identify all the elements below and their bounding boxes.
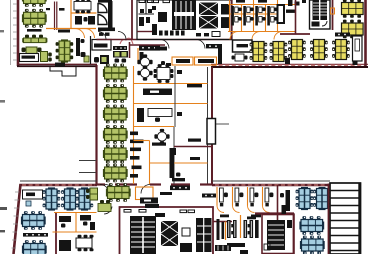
door frame core 1 bbox=[152, 0, 159, 3]
desk pod green W3 bbox=[103, 105, 128, 124]
fixture block bbox=[152, 24, 157, 35]
label room c bbox=[187, 84, 202, 87]
partition orange mid-left v bbox=[75, 213, 77, 233]
ramp / roof hatch area bbox=[329, 183, 362, 254]
cabinet bar bbox=[76, 38, 80, 56]
partition orange wing vertical bbox=[133, 66, 135, 184]
desk pod green W6 bbox=[103, 164, 128, 183]
desk pod green W4 bbox=[103, 125, 128, 144]
marks below lifts bbox=[196, 33, 201, 36]
cabinet left of blue area bbox=[282, 205, 287, 214]
wall maroon core h bbox=[137, 31, 152, 33]
partition orange wing h4 bbox=[134, 140, 150, 142]
wall segments wing south bbox=[97, 183, 214, 185]
conference table C1 bbox=[233, 40, 253, 52]
reception counter bbox=[92, 40, 111, 51]
desk pod yellow vertical D1-1 bbox=[288, 40, 306, 60]
desks right offices bbox=[286, 190, 291, 211]
orange booth 1 bbox=[172, 57, 193, 65]
wall maroon right mid band bbox=[255, 212, 294, 214]
label room b bbox=[188, 139, 201, 142]
wall maroon A1 mid double bbox=[54, 2, 56, 31]
stair bottom core bbox=[130, 216, 156, 254]
wall middle wing right inner bbox=[207, 67, 209, 184]
office desk 3 bbox=[250, 188, 258, 206]
door swing B1-2 bbox=[98, 15, 107, 25]
desk black A1 right room bbox=[75, 16, 82, 25]
conference bar dark wing bbox=[143, 89, 172, 96]
lift pair bbox=[199, 3, 218, 29]
label plate storage bbox=[247, 217, 256, 220]
desk pod blue vertical L2 bbox=[61, 187, 79, 210]
desk bench row storage bbox=[227, 220, 259, 238]
top bar B1 bbox=[98, 0, 112, 3]
wall maroon right of stair bbox=[332, 0, 334, 30]
desk mid-left room1 bbox=[59, 216, 71, 222]
wall maroon core right bbox=[231, 0, 233, 40]
cabinet bars stack wing bbox=[130, 132, 138, 136]
partition orange grid horizontal bbox=[230, 13, 278, 15]
desk pod yellow vertical D1-2 bbox=[310, 40, 328, 60]
step detail below top band bbox=[50, 66, 76, 77]
cubicle desks grid bbox=[231, 6, 234, 16]
margin text marks bbox=[0, 207, 7, 210]
wc fixtures bbox=[140, 9, 144, 13]
desk pod green vertical A1 lower bbox=[56, 39, 74, 62]
door arc wing south bbox=[105, 185, 114, 194]
desk pod green small F2 bbox=[98, 200, 111, 212]
plant room box bbox=[262, 215, 294, 254]
desk pod green A1-2 bbox=[22, 9, 47, 28]
label plate storeroom bbox=[227, 243, 245, 247]
label plates corridor bbox=[220, 215, 229, 218]
window ticks left wall bbox=[13, 4, 17, 60]
lobby mark bbox=[221, 4, 229, 28]
green desks pair lower corridor bbox=[113, 51, 128, 63]
partition orange grid verticals bbox=[229, 0, 231, 32]
reception counter bottom-left bbox=[23, 190, 43, 199]
meeting table A1 right bbox=[74, 0, 91, 13]
black square D1 bottom-right bbox=[353, 62, 358, 66]
desk mid-left room2 bbox=[80, 215, 91, 221]
desk marks wing foot right bbox=[172, 178, 185, 181]
wall middle wing left bbox=[95, 65, 97, 185]
desk pod green W2 bbox=[103, 84, 128, 103]
dim ticks left of wing bbox=[79, 160, 96, 162]
partition orange vertical A1 bbox=[70, 0, 72, 29]
partition orange storage bbox=[240, 215, 242, 238]
bar with chairs bbox=[113, 46, 127, 50]
orange room bottom of wing bbox=[136, 187, 154, 200]
desk black wing foot bbox=[140, 198, 158, 204]
partition orange office v1 bbox=[216, 187, 218, 206]
small marks right column wing bbox=[177, 70, 182, 74]
desk pod yellow horizontal D1-b bbox=[342, 20, 364, 39]
wc partition bbox=[145, 0, 147, 14]
desk pod blue vertical L1 bbox=[43, 187, 61, 210]
desk pod blue horizontal R3 bbox=[299, 216, 324, 235]
round table wing room4 bbox=[154, 129, 169, 144]
partition orange wing h2 bbox=[134, 103, 208, 105]
wc room 2 door frame bbox=[148, 0, 154, 3]
door frames core right bbox=[180, 210, 187, 213]
wall maroon C1 right bbox=[295, 0, 297, 34]
label plate black bbox=[160, 192, 172, 195]
wall top of bottom band, left part bbox=[20, 180, 97, 182]
door arcs C1 bbox=[230, 32, 238, 40]
partition orange horizontal A1 bbox=[46, 28, 96, 30]
desk pod yellow vertical D1-3 bbox=[332, 40, 350, 60]
wall maroon mid-left vertical bbox=[55, 213, 57, 254]
core outline maroon bbox=[120, 207, 214, 254]
label bar above core bbox=[145, 204, 159, 208]
small table C1 bbox=[235, 54, 244, 61]
wall maroon D1 horizontal bbox=[280, 33, 310, 35]
desk pod green W1 bbox=[103, 64, 128, 83]
desk small core mid bbox=[155, 213, 165, 217]
desk pod blue vertical L3 bbox=[76, 187, 94, 210]
cabinet column dark wing bbox=[170, 148, 175, 178]
desk pod blue horizontal L5 (cut) bbox=[22, 240, 47, 254]
bar black B1 bbox=[98, 28, 115, 32]
wall bottom of top band, left part bbox=[17, 63, 97, 65]
stair top-right block bbox=[310, 0, 331, 29]
partition orange horizontal A1 mid bbox=[71, 12, 97, 14]
partition orange office v3 bbox=[247, 187, 249, 206]
door arcs office row bbox=[217, 206, 224, 213]
round meeting table corridor bbox=[137, 54, 152, 69]
cabinet column D1 right bbox=[353, 36, 363, 61]
wall outer left angled (bottom band) bbox=[14, 184, 21, 254]
partition orange wing v2 bbox=[149, 141, 151, 185]
stair shaft main (black with slits) bbox=[172, 0, 196, 30]
lift bottom core bbox=[161, 221, 178, 246]
partition orange office v2 bbox=[232, 187, 234, 206]
counter A1 bottom-left bbox=[20, 54, 39, 62]
marks B1 bbox=[99, 33, 104, 36]
door arcs corridor bbox=[98, 32, 106, 40]
corridor desk 2 bbox=[206, 44, 222, 48]
marks wing right room bbox=[172, 148, 176, 155]
orange booth 2 bbox=[195, 57, 217, 65]
wall maroon corridor stub bbox=[130, 44, 165, 46]
blue chair single bbox=[26, 201, 31, 206]
desk pod blue vertical R1 bbox=[296, 187, 314, 210]
wall bottom of top band, right part bbox=[211, 63, 368, 65]
wall maroon wing right room bbox=[174, 146, 212, 148]
green desk small bbox=[84, 56, 89, 62]
workstation A1-4 bbox=[22, 47, 52, 62]
wall maroon stub corridor bbox=[129, 42, 131, 58]
desk pod yellow vertical C1-a bbox=[250, 42, 268, 62]
office desk 2 bbox=[235, 188, 243, 206]
chair marks near cabinet bbox=[81, 39, 85, 43]
partition orange wing h3 bbox=[134, 126, 175, 128]
side table black bbox=[27, 29, 42, 32]
fixtures core right bbox=[180, 243, 192, 252]
desk wing room3 bbox=[148, 109, 172, 117]
wall maroon below offices bbox=[213, 221, 232, 223]
round table wing top bbox=[137, 65, 152, 80]
wall corridor top band horizontal bbox=[97, 39, 233, 41]
core outline bbox=[137, 0, 232, 40]
door frames core top bbox=[124, 210, 131, 213]
desk pod blue horizontal L4 bbox=[21, 211, 46, 230]
partition orange mid-left h2 bbox=[53, 231, 97, 233]
wall top of bottom band, right part bbox=[212, 180, 330, 182]
desk row A1-3 bbox=[22, 35, 47, 43]
office desk 4 bbox=[265, 188, 273, 206]
side table black blue area bbox=[23, 233, 48, 237]
desk bar bottom corridor bbox=[215, 245, 231, 251]
wall black column B1 bbox=[108, 1, 113, 30]
orange mark right of stair bbox=[331, 8, 335, 14]
margin line far left bbox=[10, 0, 12, 65]
small chair corridor bbox=[161, 61, 165, 65]
balcony box wing right bbox=[207, 119, 216, 145]
desk pod blue horizontal R4 bbox=[300, 236, 325, 254]
door arc A1 bbox=[75, 29, 85, 39]
meeting table wing top bbox=[154, 64, 174, 83]
dark bar right of booths bbox=[218, 46, 222, 64]
plant marks bbox=[287, 220, 292, 228]
marks above cut top bbox=[236, 0, 245, 3]
partition orange mid-left h bbox=[54, 212, 97, 214]
wall maroon office right bbox=[277, 185, 279, 222]
wall black small vertical bbox=[90, 36, 92, 64]
meeting table mid-left bbox=[76, 235, 94, 251]
wall maroon B1 vertical bbox=[131, 0, 133, 40]
desk with chair lower corridor bbox=[94, 55, 109, 64]
desk black office row left bbox=[202, 194, 216, 198]
marks storeroom bbox=[240, 250, 248, 254]
desk pod yellow vertical C1-b bbox=[270, 42, 288, 62]
partition orange h top bbox=[228, 4, 296, 6]
desk pod green A1-1 (cut at top) bbox=[22, 0, 47, 7]
partition orange office v4 bbox=[262, 187, 264, 206]
desk black D1 bbox=[335, 33, 350, 37]
partition orange wing h1 bbox=[134, 83, 208, 85]
door frame core 2 bbox=[163, 0, 170, 3]
desk pod yellow horizontal D1-a bbox=[342, 0, 364, 18]
wall outer right (top band) bbox=[364, 0, 367, 66]
cabinet marks wing room3 bbox=[137, 108, 144, 122]
office desk 1 bbox=[220, 188, 228, 206]
wall middle wing right outer bbox=[211, 67, 213, 185]
partition orange wing h5 bbox=[150, 162, 208, 164]
shaft right core bbox=[196, 218, 212, 252]
plate black corridor bbox=[155, 47, 167, 51]
desk pod green small by wall bbox=[86, 188, 98, 200]
table tall C1 right room bbox=[277, 4, 286, 24]
desk pod blue vertical R2 bbox=[313, 187, 331, 210]
desk row right of wing foot bbox=[170, 186, 190, 191]
table horizontal C1 right bbox=[286, 10, 295, 13]
black mark D1 bottom-left bbox=[285, 58, 290, 64]
cabinet mid-left bbox=[59, 240, 71, 251]
corridor desk 1 bbox=[139, 45, 160, 51]
fixtures rooms core mid bbox=[158, 12, 167, 22]
desk pod green F1 bbox=[106, 183, 131, 202]
black bar under wall A1 bbox=[58, 30, 70, 33]
wc fixtures row bbox=[159, 31, 185, 36]
partition orange h bottom C1 bbox=[228, 31, 296, 33]
window ticks left wall bottom bbox=[12, 192, 20, 248]
wall maroon blue area left bbox=[293, 213, 295, 254]
corridor door arcs bottom band bbox=[100, 185, 109, 194]
partition orange stub bbox=[137, 48, 139, 64]
desk pod green W5 bbox=[103, 145, 128, 164]
door frame black below offices bbox=[217, 219, 220, 240]
tick line right of balcony bbox=[216, 123, 229, 125]
revision cloud mark bbox=[120, 38, 133, 44]
label room a bbox=[152, 143, 166, 146]
plant block dark bbox=[267, 220, 285, 250]
wall thin wing right rooms bbox=[173, 127, 175, 184]
wc room 1 door frame bbox=[139, 0, 145, 3]
door swing B1-1 bbox=[98, 4, 107, 13]
marks A1 mid bbox=[59, 8, 65, 11]
wall outer left (top band) bbox=[17, 0, 20, 66]
